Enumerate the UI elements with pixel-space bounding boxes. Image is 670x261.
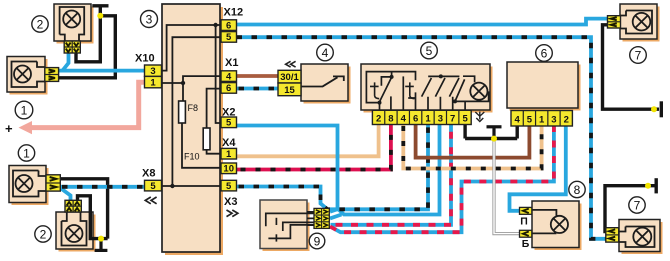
wire black lamp1-bottom row1 to ground [59,179,108,239]
arrow double-chevron at ignition switch [286,61,296,67]
rear lamp 7 top-right body [620,4,660,42]
connector lamp8 pin P [520,207,532,214]
svg-text:2: 2 [376,113,381,124]
light switch 5 body [361,64,493,113]
svg-text:1: 1 [150,77,156,88]
ground symbol right-middle (bar) [655,178,658,193]
svg-text:7: 7 [635,48,642,62]
svg-text:X1: X1 [225,57,238,69]
switch5 blade pins2-8 [380,77,392,101]
junction dot right-middle ground (yellow) [645,183,651,189]
switch5 pilot lamp symbol [470,83,487,100]
switch unit 9 body [260,200,310,251]
block3 internal wire X12:5 to X8:5 and X3:5 [162,37,222,186]
svg-text:7: 7 [450,113,455,124]
svg-text:6: 6 [541,46,548,60]
callout 1 bottom-left [18,145,34,161]
callout 8 license lamp [569,181,585,197]
block3 connector pin X10:3 [145,65,162,77]
svg-text:6: 6 [413,113,418,124]
ground symbol top-left (chassis T-bar) [92,6,108,16]
fuse F8 [179,101,186,123]
svg-text:5: 5 [462,113,468,124]
wire blue lamps1/2-top to X10:3 [59,69,147,73]
lamp1-top holder outline [12,62,46,88]
fuse F8 lead to X4:10 [182,83,221,168]
lamp2-bottom holder outline [62,213,87,246]
arrowhead pink to + [19,121,33,134]
block3 internal wire X1:6 to F10 top [207,89,221,128]
svg-text:10: 10 [223,164,234,175]
lamp1-bottom holder outline [13,171,47,197]
svg-text:Б: Б [522,238,530,250]
switch5 pivot node bottom-right [453,99,457,103]
unit9 internal circuit lines [266,213,314,241]
svg-text:7: 7 [634,198,641,212]
switch5 pin6 internal stub with hook [408,92,415,110]
switch5 pin2 node [378,101,382,105]
switch5 blade pin7 to lamp [455,79,465,101]
arrow double-chevron at X8 (to harness) [145,197,156,204]
svg-text:1: 1 [21,103,28,117]
svg-text:X8: X8 [142,168,155,180]
lamp housing 1 top-left (front sidelight) [7,57,48,95]
wire blue instrument 6 pin2 to lamp8 pin P [510,125,566,211]
wire blue stub unit9 row1 [330,209,337,211]
svg-text:4: 4 [322,46,329,60]
svg-text:8: 8 [388,113,393,124]
wire black rear lamp 7 bottom-right to ground [605,186,655,232]
svg-text:2: 2 [40,227,47,241]
svg-text:5: 5 [527,114,533,125]
switch5 pin row 2 8 4 6 1 3 7 5 [372,110,471,124]
wire blue-black dashed X12:5 to rear lamp 7 bottom-right [237,37,607,239]
svg-text:4: 4 [515,114,521,125]
wire black rear lamp 7 top-right to ground [603,25,660,109]
ignition switch 4 body [301,64,351,104]
svg-text:X4: X4 [222,137,236,149]
wire blue hop lamp1-bottom to lamp2-bottom [59,187,71,202]
callout 2 bottom-left [35,226,51,242]
wire gray-white ground dot to lamp8 pin B [494,139,521,234]
block3 connector pin X4:10 [221,163,237,175]
connector unit9 (2x3 cells, chevrons right) [314,208,329,228]
wire black lamp2-top to ground junction [76,16,100,62]
svg-text:П: П [520,216,528,228]
svg-text:5: 5 [226,181,232,192]
wire blue-black dashed X1:6 to ignition switch 15 [237,87,280,91]
block3 connector pin X8:5 [145,180,162,192]
rear lamp 7 bottom-right body [619,220,663,255]
svg-text:X12: X12 [224,7,244,19]
callout 1 top-left [15,101,33,119]
callout 4 ignition switch [317,44,334,61]
svg-text:5: 5 [226,118,232,129]
svg-text:8: 8 [574,183,581,197]
lamp housing 2 top-left (front sidelight) [54,4,94,44]
switch5 body-ground symbol (feathered arrow) [475,112,484,122]
block3 connector pin X4:1 [221,148,237,160]
callout 7 top-right [630,47,647,64]
svg-text:6: 6 [226,83,231,94]
wire blue X2:5 to switch5 pin3 and unit9 row2 [237,124,440,215]
wire brown switch5 pin6 to instrument 6 pin5 [416,124,530,158]
block3 internal wire X10:3 to X12:6 [162,25,222,71]
wire blue-red dashed unit9 row3 to instrument 6 pin3 [330,125,554,232]
lamp8 bulb symbol [551,216,568,233]
svg-text:F8: F8 [188,103,199,113]
switch5 manual-actuator symbol 1 [370,82,379,98]
junction dot right-top ground (yellow) [651,106,657,112]
callout 3 mounting block [141,11,158,28]
connector lamp2-bottom [65,200,81,212]
switch5 lamp bottom wire and pin5 stub [452,91,489,110]
svg-text:3: 3 [438,113,443,124]
mounting block 3 (fuse box) body [162,4,223,255]
svg-text:15: 15 [284,85,295,96]
svg-text:X2: X2 [222,107,235,119]
connector lamp8 pin B [520,230,532,237]
license lamp 8 body [532,201,582,250]
connector lamp7-top (chevrons left) [608,16,621,28]
connector lamp1-bottom [46,175,60,191]
svg-text:3: 3 [150,66,155,77]
fuse F10 [203,128,210,150]
block3 connector pin X12:6 [221,20,237,32]
block3 connector pin X2:5 [221,117,237,129]
wire blue-black dashed X3:5 to unit9 row1 and switch5 pin1 [237,124,429,209]
svg-text:+: + [5,121,13,136]
svg-text:F10: F10 [184,152,200,162]
svg-text:1: 1 [425,113,431,124]
switch5 middle bus [428,75,459,77]
svg-text:5: 5 [150,181,156,192]
junction dot bottom-left ground (yellow) [98,236,104,242]
svg-text:1: 1 [539,114,545,125]
svg-text:4: 4 [401,113,407,124]
lamp1-bottom bulb symbol [16,175,33,192]
block3 connector pin X1:6 [221,83,237,95]
lamp2-bottom bulb symbol [66,225,83,242]
wire blue lamp2-top drop [63,53,69,71]
switch5 blades pins 6 1 3 [422,78,459,97]
ground symbol chassis T above dot [487,127,502,139]
callout 7 bottom-right [629,197,645,213]
wire pink battery + feed from X10:1 [30,82,146,127]
svg-text:2: 2 [564,114,569,125]
wire black lamp2-bottom to ground junction [78,196,108,239]
block3 connector pin X1:4 [221,71,237,83]
svg-text:2: 2 [37,17,44,31]
wire brown X1:4 to ignition switch 30/1 [237,74,280,78]
wire blue stub unit9 row2 [330,215,342,219]
lamp7-bottom holder outline [619,227,655,248]
wire black ground bus under switch5 pin5 [465,124,517,139]
wire black ground junction to lamp1-top connector [59,16,116,78]
lamp housing 2 bottom-left [56,212,96,252]
wire blue X12:6 to rear lamp 7 top-right [237,19,609,25]
wire tan X4:1 to switch5 pin2 [237,124,379,156]
wire tan-black dashed switch5 pin4 to instrument 6 pin1 [403,124,541,169]
svg-text:X10: X10 [135,53,155,65]
svg-text:3: 3 [146,12,153,26]
callout 2 top-left [32,16,48,32]
ignition switch 4 contact 30/1-15 [301,76,344,86]
svg-text:30/1: 30/1 [280,72,299,83]
svg-text:6: 6 [226,20,231,31]
connector lamp1-top (2 cells, chevrons to wires) [45,68,59,82]
svg-text:1: 1 [23,146,30,160]
lamp housing 1 bottom-left [9,166,49,206]
lamp7-top holder outline [620,11,653,34]
svg-text:4: 4 [226,71,232,82]
lamp2-top bulb symbol [63,11,80,28]
callout 9 switch unit [309,233,325,249]
junction dot center ground (yellow) [491,136,497,142]
svg-text:5: 5 [426,44,433,58]
connector lamp2-top [64,41,80,53]
wire crimson-black dashed X4:10 to switch5 pin8 [237,124,391,170]
callout 5 light switch [421,42,438,59]
junction node F8 top [181,81,185,85]
connector lamp7-bottom [606,228,619,242]
switch5 middle bus node [439,74,443,78]
arrow double-chevron at X3 (to harness) [227,210,238,217]
lamp1-top bulb symbol [14,66,31,83]
lamp7-bottom bulb symbol [633,228,651,246]
ground symbol bottom-left [95,239,108,251]
switch5 pin4 contact line [402,76,404,110]
lamp2-top holder outline [60,7,85,42]
junction node X8:5 [170,184,174,188]
wire black instrument 6 pin4 to ground node [516,125,519,139]
unit9 stubs to connector [307,212,314,225]
wire blue-black dashed X8:5 to lamp1-bottom [59,185,146,189]
block3 internal wire X10:1 to X1:4 [162,76,222,83]
callout 6 instrument unit [536,45,553,62]
switch5 manual-actuator symbol 2 [405,82,414,98]
instrument6 pin row 4 5 1 3 2 [511,111,572,127]
lamp7-top bulb symbol [633,13,651,31]
svg-text:3: 3 [551,114,556,125]
svg-text:5: 5 [226,32,232,43]
ignition switch pin 15 [278,83,301,96]
svg-text:1: 1 [226,149,232,160]
switch5 blade-top node and fixed contact [390,75,394,79]
junction node X12:6 branch [213,23,217,27]
switch5 internal outline left section [366,72,415,103]
fuse F10 lead to X4:1 [207,150,221,154]
switch5 stubs pins 6 1 3 7 [428,97,453,111]
switch5 pin8 stub [390,96,392,110]
ground symbol right-top (bar) [660,101,663,117]
lamp8 internal leads [532,210,557,234]
switch5 lamp fixed contact hook [463,76,475,82]
wire blue-red dashed unit9 row3 to switch5 pin7 [331,124,452,225]
block3 connector pin X12:5 [221,32,237,44]
block3 connector pin X10:1 [145,76,162,88]
junction dot top-left ground (yellow) [97,13,103,19]
ignition switch pin 30/1 [278,70,301,83]
svg-text:X3: X3 [224,196,237,208]
block3 connector pin X3:5 [221,180,237,192]
block3 internal wire X12:6 branch to X2:5 [216,25,221,123]
instrument unit 6 body [507,62,581,111]
svg-text:9: 9 [314,234,321,248]
